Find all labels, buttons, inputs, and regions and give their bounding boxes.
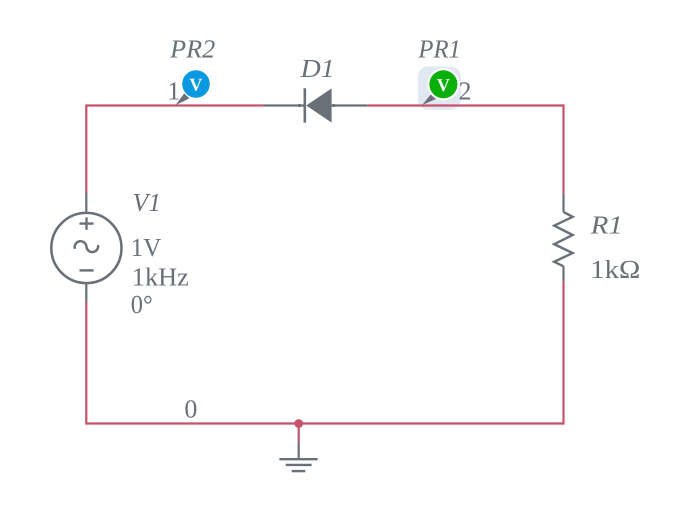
ground stub red: [298, 424, 300, 443]
wire right vertical lower: [562, 281, 564, 424]
probe PR1 selection highlight: [418, 67, 461, 110]
svg-text:V: V: [437, 75, 450, 95]
ground bar 3: [292, 470, 306, 472]
svg-text:0°: 0°: [131, 290, 153, 319]
probe PR1 needle: [422, 94, 436, 105]
svg-text:1V: 1V: [131, 233, 162, 262]
wire top-right segment (node 2): [367, 104, 563, 106]
diode D1 pin end nub left: [298, 104, 301, 107]
svg-text:1kHz: 1kHz: [132, 263, 189, 292]
voltage source V1 top pin: [85, 193, 87, 212]
voltage source V1 plus sign: [80, 217, 94, 229]
ground bar 1: [279, 458, 317, 460]
svg-text:PR1: PR1: [417, 35, 460, 64]
diode D1 pin end nub right: [332, 104, 335, 107]
svg-text:PR2: PR2: [169, 35, 215, 64]
svg-text:V1: V1: [133, 188, 162, 217]
wire top-left segment (node 1): [86, 104, 263, 106]
wire left vertical upper: [85, 104, 87, 193]
svg-text:R1: R1: [590, 211, 623, 240]
diode D1 left lead: [263, 104, 304, 106]
voltage source V1 sine symbol: [75, 241, 98, 252]
svg-text:1: 1: [167, 77, 180, 106]
junction dot node 0: [294, 419, 303, 428]
resistor R1 top pin: [562, 194, 564, 212]
svg-text:V: V: [189, 75, 202, 95]
voltage source V1 minus sign: [80, 269, 94, 271]
voltage source V1 bottom pin: [85, 284, 87, 302]
wire bottom segment (node 0): [86, 422, 563, 424]
ground stub gray: [298, 442, 300, 459]
wire right vertical upper: [562, 104, 564, 193]
probe PR1 circle: [429, 70, 457, 98]
ground bar 2: [286, 464, 312, 466]
wire left vertical lower: [85, 302, 87, 425]
diode D1 cathode bar: [303, 88, 306, 122]
resistor R1 bottom pin: [562, 266, 564, 281]
svg-text:2: 2: [459, 77, 472, 106]
diode D1 triangle: [306, 88, 331, 122]
voltage source V1 circle: [51, 213, 121, 283]
resistor R1 zigzag: [554, 212, 573, 266]
probe PR2 circle: [182, 70, 210, 98]
svg-text:D1: D1: [300, 54, 335, 83]
probe PR2 needle: [175, 93, 189, 105]
probe PR1 white ring: [427, 68, 459, 100]
svg-text:0: 0: [184, 395, 197, 424]
diode D1 right lead: [332, 104, 368, 106]
svg-text:1kΩ: 1kΩ: [590, 255, 640, 284]
